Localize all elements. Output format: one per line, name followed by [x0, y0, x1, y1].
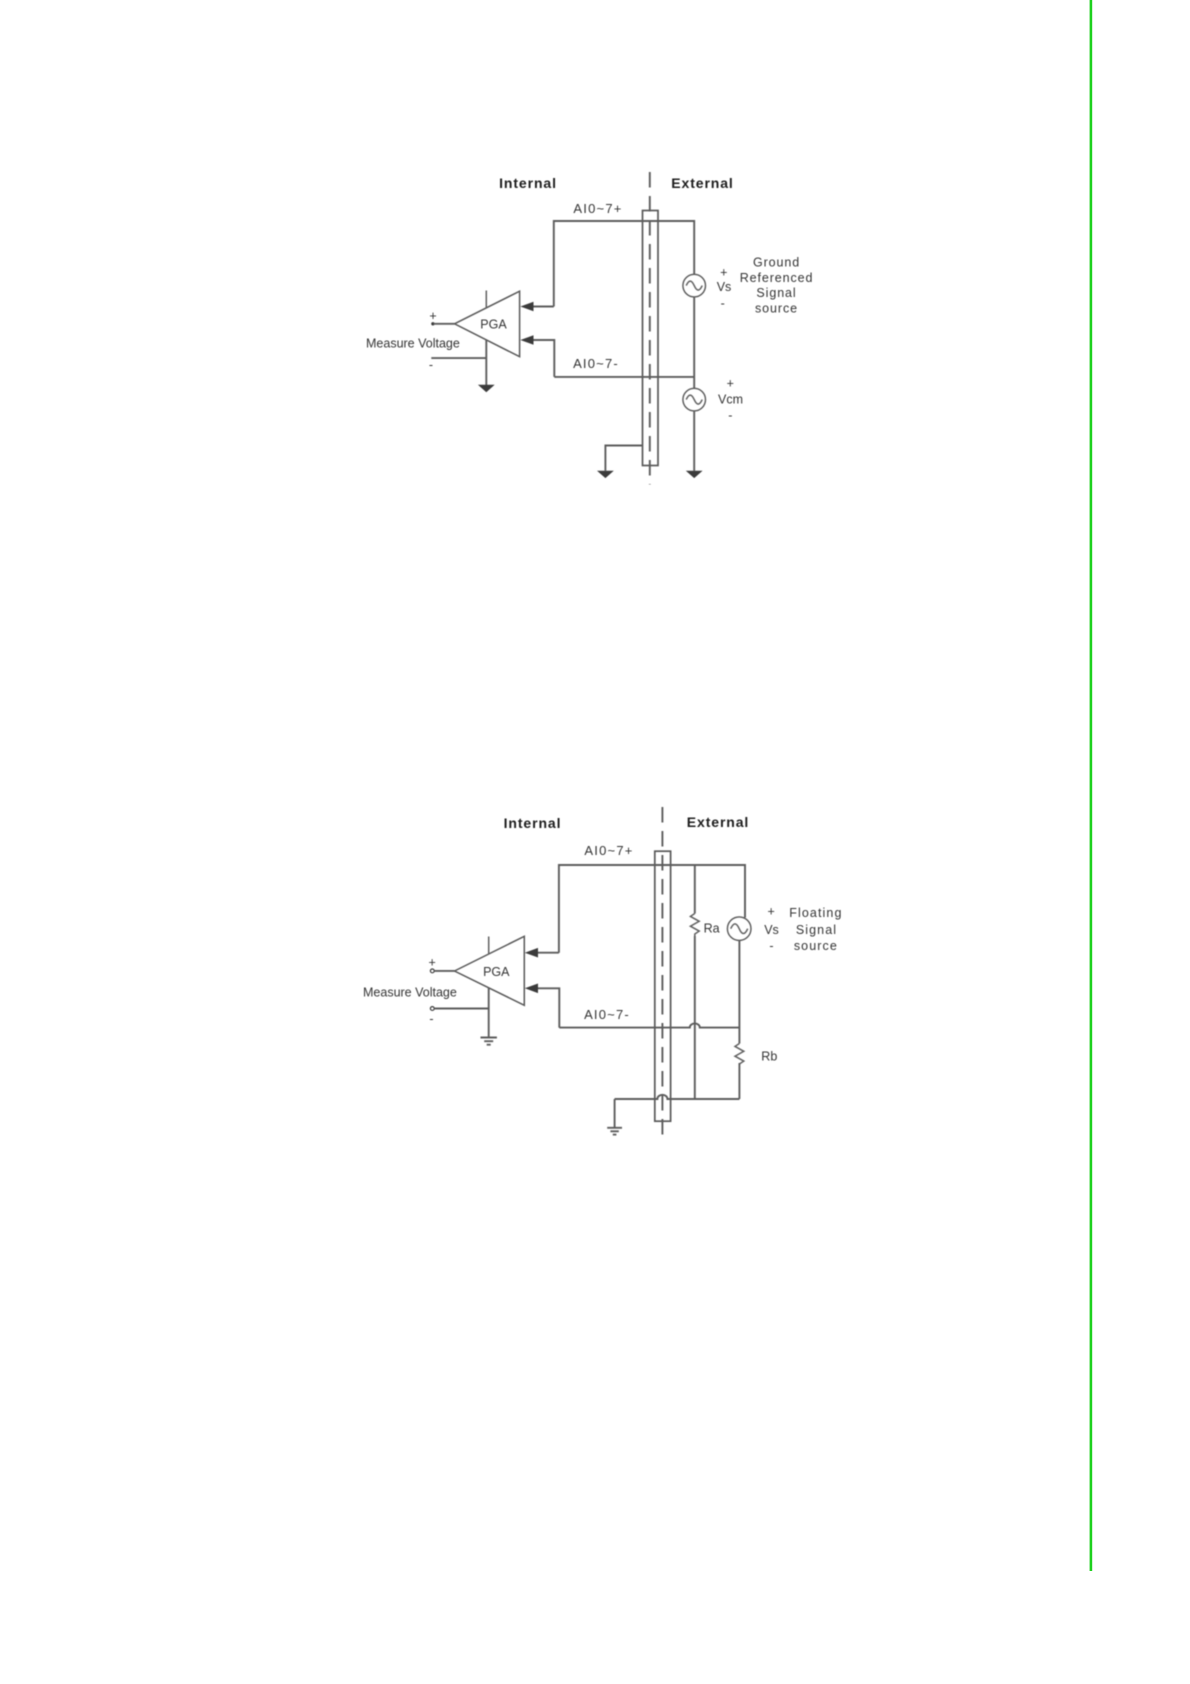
svg-text:Rb: Rb	[761, 1050, 777, 1064]
label Ground Referenced Signal source (top)	[740, 256, 814, 316]
resistor Rb (bottom)	[735, 1044, 744, 1065]
wire shield to ground (bottom)	[614, 1099, 616, 1127]
svg-text:Ground: Ground	[753, 256, 800, 270]
ground shield (top, arrow style)	[597, 471, 614, 478]
svg-text:+: +	[727, 377, 734, 391]
svg-text:Measure Voltage: Measure Voltage	[363, 986, 457, 1000]
wire PGA - input arrow (top)	[532, 340, 554, 377]
source Vs (top)	[683, 274, 706, 297]
svg-text:+: +	[429, 956, 436, 970]
resistor Ra (bottom)	[690, 914, 699, 937]
label Floating Signal source (bottom)	[789, 906, 842, 953]
wire + terminal to PGA (top)	[434, 323, 455, 325]
op-amp U2 PGA (bottom)	[455, 936, 525, 1005]
ground PGA (top, arrow style)	[478, 385, 495, 392]
svg-text:Vs: Vs	[764, 923, 779, 937]
svg-text:External: External	[671, 175, 733, 191]
svg-text:-: -	[728, 409, 732, 423]
node - terminal (bottom)	[430, 1007, 434, 1011]
wire Vs to Rb (bottom)	[738, 941, 740, 1044]
PGA bottom pin to ground (top)	[485, 340, 487, 385]
wire - terminal (top)	[431, 357, 486, 359]
wire Ra bottom segment (bottom)	[694, 936, 696, 1099]
green page margin line	[1090, 0, 1093, 1571]
boundary dashed line (bottom)	[661, 807, 663, 1136]
svg-text:Signal: Signal	[756, 286, 796, 300]
svg-text:Referenced: Referenced	[740, 271, 814, 285]
svg-text:Vcm: Vcm	[718, 393, 743, 407]
op-amp U1 PGA (top)	[455, 291, 520, 357]
boundary dashed line (top)	[649, 172, 651, 485]
svg-text:AI0~7-: AI0~7-	[584, 1007, 630, 1022]
svg-text:External: External	[687, 814, 749, 830]
svg-text:Measure Voltage: Measure Voltage	[366, 337, 460, 351]
arrowhead + input (bottom)	[525, 948, 538, 958]
ground PGA (bottom, IEC style)	[481, 1038, 497, 1045]
PGA top pin stub (bottom)	[488, 937, 490, 955]
source Vs (bottom)	[727, 917, 751, 941]
svg-text:source: source	[755, 301, 798, 315]
wire Rb bottom segment (bottom)	[738, 1063, 740, 1099]
svg-text:AI0~7-: AI0~7-	[573, 356, 619, 371]
svg-text:-: -	[769, 939, 773, 953]
wire AI0~7+ horizontal (top)	[554, 221, 694, 307]
wire AI0~7- horizontal with hop over Ra (bottom)	[559, 1023, 739, 1027]
svg-text:PGA: PGA	[483, 965, 510, 979]
wire Ra top segment (bottom)	[694, 865, 696, 914]
svg-text:Internal: Internal	[504, 815, 562, 831]
wire shield to ground (top)	[605, 446, 642, 471]
connector J1 (isolation barrier)	[643, 211, 659, 466]
svg-text:Floating: Floating	[789, 906, 842, 920]
arrowhead + input (top)	[520, 302, 533, 312]
arrowhead - input (top)	[520, 335, 533, 345]
wire bottom return with hop over dashed line (bottom)	[615, 1095, 740, 1099]
node + terminal (top)	[431, 322, 434, 325]
wire AI0~7- horizontal (top)	[554, 376, 694, 378]
ground shield (bottom, IEC style)	[607, 1128, 622, 1135]
node + terminal (bottom)	[430, 969, 434, 973]
svg-text:+: +	[429, 309, 436, 323]
arrowhead - input (bottom)	[525, 984, 538, 994]
connector J2 (isolation barrier)	[655, 851, 671, 1121]
svg-text:source: source	[794, 939, 838, 953]
svg-text:PGA: PGA	[480, 318, 507, 332]
ground external (top, arrow style)	[686, 471, 703, 478]
wire - terminal (bottom)	[434, 1008, 489, 1010]
svg-text:Internal: Internal	[499, 175, 557, 191]
wire PGA + input arrow (bottom)	[537, 952, 559, 954]
svg-text:AI0~7+: AI0~7+	[573, 201, 622, 216]
PGA bottom pin to ground (bottom)	[488, 988, 490, 1037]
wire + terminal to PGA (bottom)	[434, 970, 454, 972]
svg-text:Vs: Vs	[717, 280, 732, 294]
svg-text:Signal: Signal	[796, 923, 837, 937]
svg-text:AI0~7+: AI0~7+	[584, 843, 633, 858]
svg-text:+: +	[768, 905, 775, 919]
wire PGA + input arrow (top)	[532, 306, 554, 308]
wire AI0~7+ horizontal (bottom)	[559, 865, 745, 953]
svg-text:Ra: Ra	[704, 922, 720, 936]
svg-text:+: +	[720, 266, 727, 280]
svg-text:-: -	[721, 297, 725, 311]
source Vcm (top)	[683, 388, 706, 411]
svg-text:-: -	[429, 358, 433, 372]
svg-text:-: -	[429, 1012, 433, 1026]
wire Vs to Vcm (top)	[693, 297, 695, 389]
PGA top pin stub (top)	[485, 291, 487, 309]
wire PGA - input arrow (bottom)	[537, 988, 560, 1027]
wire Vcm to ground (top)	[693, 411, 695, 471]
